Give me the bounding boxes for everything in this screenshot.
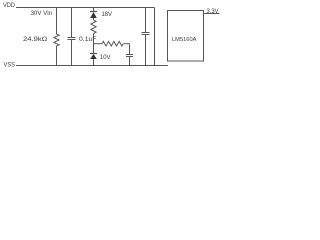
svg-text:24.9kΩ: 24.9kΩ [23, 36, 48, 43]
svg-text:VSS: VSS [4, 62, 16, 69]
svg-text:0.1uF: 0.1uF [79, 36, 97, 43]
svg-text:30V Vin: 30V Vin [31, 10, 53, 17]
svg-text:VDD: VDD [3, 2, 15, 9]
svg-text:10V: 10V [100, 55, 111, 61]
svg-text:18V: 18V [102, 12, 113, 18]
svg-text:3.3V: 3.3V [207, 8, 220, 15]
svg-text:LM5160A: LM5160A [172, 37, 197, 43]
